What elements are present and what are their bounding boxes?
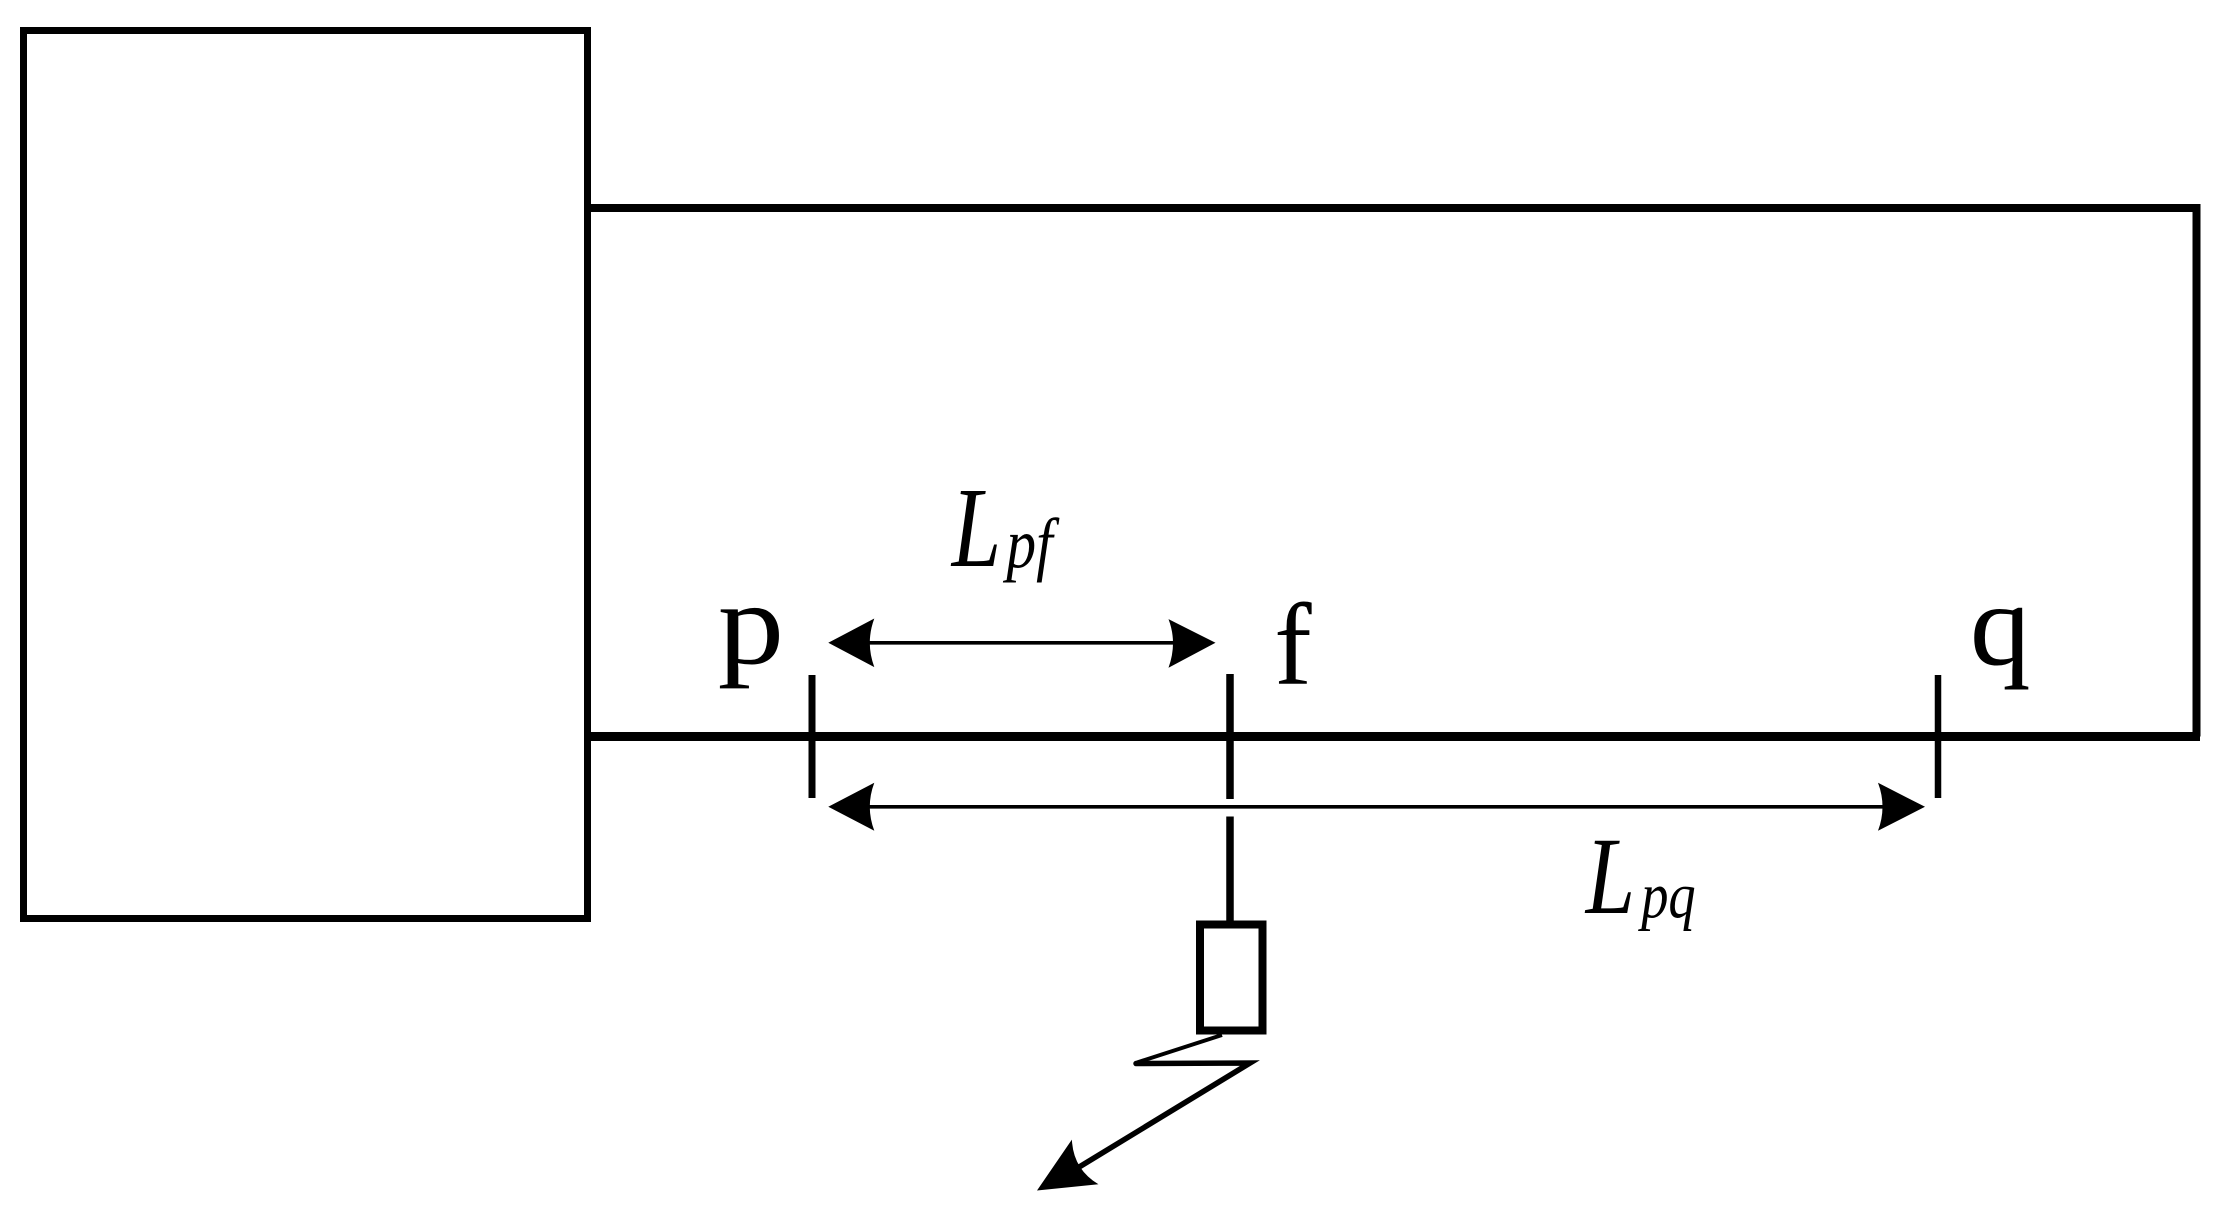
fault lightning zigzag lower strokes <box>1048 1063 1250 1186</box>
source block rectangle (left) <box>24 31 588 919</box>
Lpq left arrowhead <box>828 783 874 831</box>
fault lightning zigzag upper stroke <box>1137 1035 1222 1063</box>
node f tick <box>1226 674 1234 799</box>
label Lpq (L) <box>1584 815 1635 937</box>
fault connector wire from f down to fault box <box>1226 817 1234 927</box>
svg-text:pq: pq <box>1638 860 1696 931</box>
fault resistance box <box>1200 925 1263 1031</box>
Lpf left arrowhead <box>828 619 874 668</box>
Lpf right arrowhead <box>1169 619 1216 668</box>
transmission line (bottom edge through p, f, q) <box>584 732 2200 741</box>
svg-text:pf: pf <box>1003 506 1060 584</box>
label f <box>1274 580 1312 709</box>
Lpq dimension arrow shaft <box>866 805 1884 809</box>
svg-text:q: q <box>1970 560 2031 690</box>
node p tick <box>809 675 816 798</box>
node q tick <box>1935 675 1942 798</box>
line section rectangle (right, top and right edges) <box>588 208 2197 737</box>
svg-text:L: L <box>1584 815 1635 937</box>
label Lpf (subscript pf) <box>1003 506 1060 584</box>
label Lpq (subscript pq) <box>1638 860 1696 931</box>
Lpq right arrowhead <box>1878 783 1925 831</box>
label p <box>718 559 784 689</box>
Lpf dimension arrow shaft <box>866 641 1176 645</box>
label Lpf (L) <box>950 465 1001 591</box>
svg-text:L: L <box>950 465 1001 591</box>
svg-text:f: f <box>1274 580 1312 709</box>
fault lightning arrowhead <box>1024 1140 1099 1213</box>
svg-text:p: p <box>718 559 784 689</box>
label q <box>1970 560 2031 690</box>
